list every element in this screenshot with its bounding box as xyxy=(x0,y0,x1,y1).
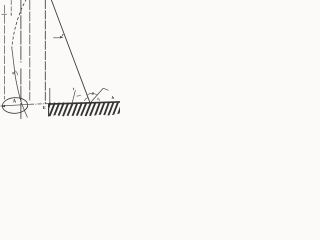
svg-text:Б: Б xyxy=(43,105,46,110)
svg-text:t₁: t₁ xyxy=(97,96,100,101)
svg-text:A: A xyxy=(13,99,17,104)
svg-text:θ: θ xyxy=(92,91,94,96)
